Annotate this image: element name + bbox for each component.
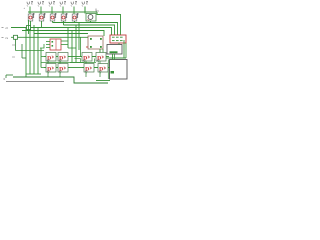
svg-text:cl: cl [6,26,9,30]
svg-text:rs: rs [6,36,9,40]
svg-text:0: 0 [4,77,6,81]
svg-text:+: + [24,6,26,10]
